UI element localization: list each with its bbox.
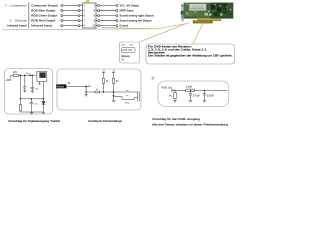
capacitor C3 bbox=[31, 75, 34, 91]
wire row3 right bbox=[96, 15, 118, 17]
ground C3 bbox=[31, 91, 34, 93]
resistor R2 bbox=[19, 105, 21, 111]
connector J2 highlight on photo bbox=[193, 20, 213, 23]
resistor R5 bbox=[86, 91, 95, 93]
wire module down bbox=[43, 81, 45, 98]
wire row5 right bbox=[96, 25, 118, 27]
wire row3 left bbox=[61, 15, 83, 17]
diode D1 bbox=[42, 99, 45, 112]
svg-text:in: in bbox=[88, 85, 89, 87]
wire R1 to module bbox=[19, 74, 37, 76]
junction node E bbox=[103, 91, 104, 92]
svg-text:Y - Luminance: Y - Luminance bbox=[5, 4, 27, 8]
callout photo to pinout box bbox=[140, 22, 190, 42]
junction node D2 bbox=[86, 91, 87, 92]
wire row2 left bbox=[61, 9, 83, 11]
module TOTX body bbox=[37, 72, 47, 82]
callout pin1 dot bbox=[87, 0, 90, 2]
ground C7 bbox=[203, 101, 206, 103]
wire row2 right bbox=[96, 9, 118, 11]
junction node G bbox=[174, 90, 175, 91]
ground node F bbox=[112, 100, 115, 102]
junction node C bbox=[43, 98, 44, 99]
svg-text:Vorschlag für Digitalausgang T: Vorschlag für Digitalausgang Toslink bbox=[8, 119, 61, 123]
svg-text:RGB Blue Output: RGB Blue Output bbox=[31, 9, 55, 13]
wire row5 left bbox=[61, 25, 83, 27]
svg-text:Ground: Ground bbox=[120, 24, 129, 28]
svg-text:Infrared Input: Infrared Input bbox=[7, 24, 27, 28]
box1 Toslink circuit bbox=[5, 69, 53, 115]
svg-text:C - Chroma: C - Chroma bbox=[10, 19, 27, 23]
ground C6 bbox=[189, 101, 192, 103]
bottom rail bbox=[20, 111, 43, 113]
ground C2 bbox=[23, 91, 26, 93]
power flag R4 bbox=[112, 72, 115, 78]
junction node A bbox=[24, 75, 25, 76]
wire row1 left bbox=[61, 4, 83, 6]
power flag R3 bbox=[102, 72, 105, 78]
resistor R1 bbox=[13, 74, 19, 76]
junction node G2 bbox=[113, 95, 114, 96]
wire row4 left bbox=[61, 20, 83, 22]
svg-text:220: 220 bbox=[13, 71, 18, 74]
svg-text:270pF: 270pF bbox=[193, 94, 201, 97]
svg-text:Der Stecker ist gegenüber der: Der Stecker ist gegenüber der Abbildung … bbox=[148, 54, 233, 58]
mid wire bbox=[20, 98, 43, 100]
wire row4 right bbox=[96, 20, 118, 22]
svg-text:1,5µH: 1,5µH bbox=[186, 86, 193, 89]
svg-text:RGB Out: RGB Out bbox=[162, 85, 173, 89]
capacitor C6 bbox=[189, 90, 192, 100]
svg-text:Alle drei Farben erhalten mit: Alle drei Farben erhalten mit dieser Fil… bbox=[152, 122, 228, 126]
capacitor C7 bbox=[203, 90, 206, 100]
junction node H bbox=[190, 90, 191, 91]
svg-text:Sound analog right Output: Sound analog right Output bbox=[120, 14, 154, 18]
svg-text:+5V: +5V bbox=[6, 78, 11, 82]
callout photo to note box bbox=[191, 23, 203, 48]
wire node F down bbox=[113, 92, 115, 100]
svg-text:Vorschlag für den RGB- Ausgang: Vorschlag für den RGB- Ausgang bbox=[152, 117, 200, 121]
resistor R3 bbox=[102, 78, 104, 83]
connector J2 pin numbers right bbox=[92, 3, 95, 27]
svg-text:rechts: rechts bbox=[129, 43, 134, 46]
ground node D bbox=[84, 94, 87, 96]
wire mid right bbox=[99, 91, 117, 93]
pinout box bbox=[120, 42, 140, 63]
box2 IR receiver circuit bbox=[57, 69, 141, 110]
main wire bbox=[173, 89, 227, 91]
pinout connector symbol bbox=[122, 47, 136, 52]
jack switch bbox=[114, 97, 138, 100]
capacitor C2 bbox=[23, 75, 26, 90]
connector J2 body bbox=[83, 3, 97, 28]
svg-text:Infrared Input: Infrared Input bbox=[31, 24, 52, 28]
svg-text:IR: IR bbox=[68, 83, 71, 85]
divider line bbox=[2, 29, 157, 30]
ground R5 bbox=[173, 101, 176, 103]
svg-text:330pF: 330pF bbox=[207, 94, 215, 97]
junction node D bbox=[85, 86, 86, 87]
table separator line bbox=[28, 3, 30, 29]
wire row1 right bbox=[96, 4, 118, 6]
callout photo to connector bbox=[102, 24, 185, 29]
svg-text:out: out bbox=[126, 89, 129, 92]
svg-text:-: - bbox=[24, 14, 25, 18]
svg-text:0,1µ: 0,1µ bbox=[25, 73, 30, 75]
wire IR input bbox=[66, 85, 90, 87]
svg-text:RGB Red Output: RGB Red Output bbox=[31, 19, 55, 23]
resistor R4 bbox=[112, 78, 114, 83]
junction node B bbox=[30, 75, 31, 76]
svg-text:RGB Green Output: RGB Green Output bbox=[31, 14, 57, 18]
svg-text:Vorschlag für Infrarotempfänge: Vorschlag für Infrarotempfänger bbox=[88, 119, 122, 123]
resistor R5 bbox=[174, 90, 176, 92]
junction node A2 bbox=[32, 75, 33, 76]
svg-text:1k: 1k bbox=[96, 89, 98, 91]
svg-text:Sound analog left Output: Sound analog left Output bbox=[120, 19, 152, 23]
Infrarot input label bbox=[56, 84, 66, 88]
svg-text:-: - bbox=[24, 9, 25, 13]
connector J2 pin numbers left bbox=[84, 3, 86, 27]
svg-text:3°: 3° bbox=[152, 77, 156, 81]
svg-text:Composite Output: Composite Output bbox=[31, 4, 58, 8]
svg-text:VCC +5V Output: VCC +5V Output bbox=[120, 4, 140, 8]
svg-text:SPDIF Output: SPDIF Output bbox=[120, 9, 134, 13]
jack bars bbox=[138, 92, 140, 102]
callout pin1 pointer bbox=[78, 1, 87, 6]
capacitor C4 bbox=[30, 99, 33, 112]
PCB card photo bbox=[181, 3, 234, 22]
junction node F bbox=[113, 91, 114, 92]
wire 5V to R1 bbox=[10, 75, 13, 78]
svg-text:Infrarot: Infrarot bbox=[57, 85, 65, 88]
wire node D down bbox=[85, 86, 87, 94]
inductor L1 bbox=[186, 89, 195, 92]
junction node I bbox=[204, 90, 205, 91]
terminal in bbox=[171, 90, 173, 92]
jack wire top bbox=[117, 91, 138, 93]
ground rail bbox=[30, 113, 45, 115]
note box bbox=[146, 44, 235, 64]
wire R2 branch bbox=[19, 75, 21, 104]
svg-text:Klinke: Klinke bbox=[125, 102, 130, 104]
